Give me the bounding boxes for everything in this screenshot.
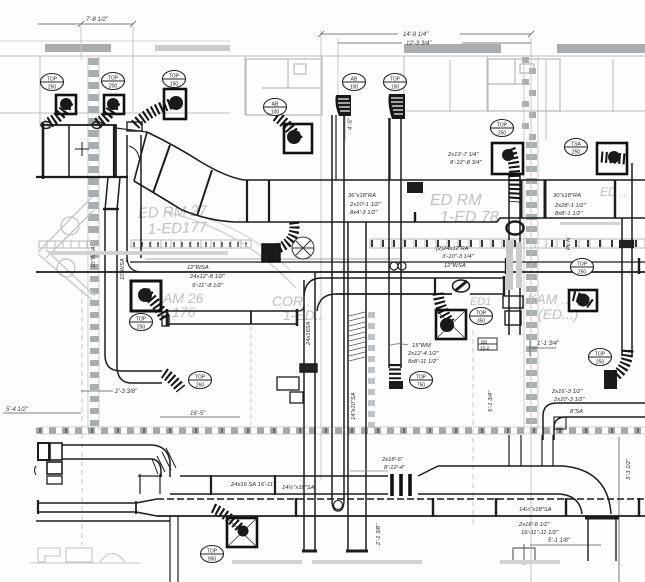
svg-text:2'-3 3/8": 2'-3 3/8" [114,389,138,395]
svg-text:150: 150 [170,82,179,88]
svg-text:TOP: TOP [136,317,147,323]
svg-text:30"x18"RA: 30"x18"RA [553,193,581,199]
svg-text:250: 250 [137,325,146,331]
svg-text:12'-3 3/4": 12'-3 3/4" [406,41,432,47]
svg-text:250: 250 [596,360,605,366]
svg-text:10"WSA: 10"WSA [91,246,97,268]
svg-text:3'-10"-3 1/4": 3'-10"-3 1/4" [442,254,475,260]
svg-text:(2)24x12 RA: (2)24x12 RA [436,246,469,252]
svg-text:2x10'-3 1/2": 2x10'-3 1/2" [553,397,586,403]
svg-text:4'-5": 4'-5" [348,117,354,130]
svg-text:5'-1 3/4": 5'-1 3/4" [488,390,494,412]
svg-text:36"x18"RA: 36"x18"RA [348,193,376,199]
svg-text:7'-8 1/2": 7'-8 1/2" [86,17,109,23]
svg-text:1'-1 3/4": 1'-1 3/4" [537,341,560,347]
svg-text:9'-11"-8 1/2": 9'-11"-8 1/2" [192,283,224,289]
svg-text:24x12"-8 1/2": 24x12"-8 1/2" [189,274,226,280]
svg-text:1-ED177: 1-ED177 [148,219,208,238]
svg-text:16'-11"-11 1/2": 16'-11"-11 1/2" [521,530,559,536]
svg-text:TOP: TOP [108,76,119,82]
svg-text:950: 950 [208,557,217,563]
svg-text:TOP: TOP [595,352,606,358]
svg-text:TOP: TOP [497,123,508,129]
svg-text:24x16 SA 16'-11": 24x16 SA 16'-11" [230,482,276,488]
svg-text:KAM ..: KAM .. [527,291,569,307]
svg-text:TOP: TOP [577,262,588,268]
svg-text:12"WSA: 12"WSA [187,265,209,271]
svg-text:250: 250 [498,131,507,137]
svg-text:AB: AB [272,102,279,108]
svg-text:14½"x18"SA: 14½"x18"SA [282,484,315,491]
svg-text:ED ..: ED .. [600,185,627,199]
svg-text:(ED...): (ED...) [538,306,578,322]
svg-text:TSA: TSA [571,142,581,148]
svg-text:200: 200 [109,84,118,90]
svg-text:250: 250 [48,85,57,91]
svg-text:176: 176 [172,304,196,320]
svg-text:24x16SA: 24x16SA [306,321,312,346]
svg-text:ED1: ED1 [470,296,491,308]
svg-text:260: 260 [196,383,205,389]
svg-text:10"WSA: 10"WSA [120,258,126,280]
svg-text:250: 250 [572,150,581,156]
svg-text:100: 100 [271,110,280,116]
svg-text:2x28'-1 1/2": 2x28'-1 1/2" [554,203,587,209]
svg-text:8'-12'-4": 8'-12'-4" [384,465,406,471]
svg-text:5'-1 1/8": 5'-1 1/8" [548,538,571,544]
svg-text:ED RM: ED RM [430,192,482,209]
svg-text:8"SA: 8"SA [570,409,583,415]
svg-text:8x4'-3 1/2": 8x4'-3 1/2" [350,210,378,216]
svg-text:TOP: TOP [169,74,180,80]
svg-text:3'-3 1/2": 3'-3 1/2" [626,458,632,480]
svg-text:AB: AB [351,77,358,83]
svg-text:150: 150 [391,85,400,91]
svg-text:14'-9 1/4": 14'-9 1/4" [403,32,429,38]
svg-text:15-2: 15-2 [480,346,490,351]
svg-text:2'-1 3/8": 2'-1 3/8" [376,523,382,546]
svg-text:100: 100 [350,85,359,91]
svg-text:2x18'-8 1/2": 2x18'-8 1/2" [518,522,551,528]
svg-text:TOP: TOP [416,375,427,381]
svg-text:250: 250 [578,270,587,276]
svg-text:TOP: TOP [207,549,218,555]
svg-text:TOP: TOP [47,77,58,83]
svg-text:TOP: TOP [195,375,206,381]
svg-text:TOP: TOP [476,311,487,317]
svg-text:8x8'-1 1/2": 8x8'-1 1/2" [555,211,583,217]
svg-text:1-ED 78: 1-ED 78 [440,209,499,226]
svg-text:15"WM: 15"WM [412,343,431,349]
svg-text:14"x10"SA: 14"x10"SA [351,392,357,420]
svg-text:14½"x18"SA: 14½"x18"SA [519,506,552,513]
svg-text:TOP: TOP [390,77,401,83]
svg-text:DB: DB [481,340,487,345]
svg-text:2x13'-7 1/4": 2x13'-7 1/4" [447,152,480,158]
svg-text:350: 350 [477,319,486,325]
svg-text:PL'N: PL'N [566,237,572,250]
svg-text:750: 750 [417,383,426,389]
svg-text:2x12'-4 1/2": 2x12'-4 1/2" [407,351,440,357]
svg-text:8x8'-11 1/2": 8x8'-11 1/2" [408,359,439,365]
svg-text:16'-5": 16'-5" [190,411,206,417]
svg-text:2x18'-6": 2x18'-6" [381,457,404,463]
svg-text:12"WSA: 12"WSA [444,263,466,269]
svg-text:5'-4 1/2": 5'-4 1/2" [6,407,29,413]
svg-text:2x10'-1 1/2": 2x10'-1 1/2" [349,202,382,208]
svg-text:8'-12"-8 3/4": 8'-12"-8 3/4" [450,160,483,166]
svg-text:2x16'-3 1/2": 2x16'-3 1/2" [551,389,584,395]
